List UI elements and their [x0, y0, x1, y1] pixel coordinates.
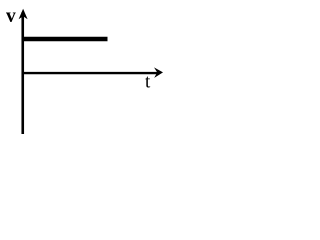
step line (constant v)	[22, 37, 108, 42]
t-axis arrowhead	[154, 67, 163, 78]
svg-text:v: v	[6, 6, 16, 27]
t-axis horizontal line	[22, 72, 159, 74]
svg-text:t: t	[145, 72, 151, 93]
v-axis vertical line	[21, 12, 24, 134]
v-axis arrowhead	[19, 9, 28, 19]
